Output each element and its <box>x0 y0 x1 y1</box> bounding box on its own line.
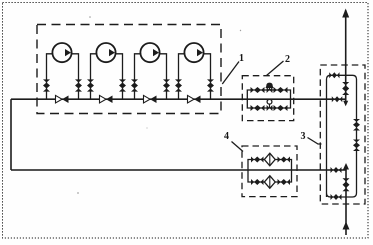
valve: header gate under pump 2 <box>100 95 107 103</box>
svg-text:1: 1 <box>239 53 244 64</box>
valve: pump 3 discharge double gate <box>163 79 170 91</box>
valve: pump 3 suction double gate <box>131 79 138 91</box>
pipe: pump 1 suction <box>47 54 54 99</box>
valve: box3 loop bottom double <box>331 194 342 200</box>
valve: header entry double (on y98.5 line) <box>332 96 343 102</box>
valve: box3 right branch lower double <box>353 140 360 152</box>
valve: pump 4 suction double gate <box>175 79 182 91</box>
valve: box4 bottom-left double <box>251 179 264 185</box>
valve: pump 1 discharge double gate <box>75 79 82 91</box>
valve: box3 right branch upper double <box>353 119 360 131</box>
valve: bottom line entry double <box>331 167 342 173</box>
valve: box2 bottom-left double <box>251 105 265 111</box>
valve: pump 2 suction double gate <box>87 79 94 91</box>
strainer: box4 top diamond <box>264 153 275 166</box>
pipe: box 4 loop <box>248 160 292 183</box>
valve: box4 top-left double <box>251 157 264 163</box>
dashed enclosure box 1 (pump house) <box>37 25 221 114</box>
valve: box4 top-right double <box>278 157 291 163</box>
valve: box2 bottom-right double <box>274 105 288 111</box>
pump GPA-2 circle <box>96 43 115 62</box>
pipe: discharge header <box>11 98 346 100</box>
pipe: box3 bypass loop <box>327 75 357 197</box>
pipe: pump 4 discharge <box>203 54 211 99</box>
valve: header gate under pump 3 <box>144 95 151 103</box>
pump GPA-3 circle <box>140 43 159 62</box>
valve: box2 top-left double <box>251 87 265 93</box>
arrow: main top line end, down into header junction <box>343 101 348 107</box>
pipe: pump 4 suction <box>179 54 186 99</box>
svg-text:3: 3 <box>301 131 306 142</box>
arrow: bottom flow up (incoming) <box>343 222 350 230</box>
pipe: pump 3 discharge <box>159 54 167 99</box>
valve: header gate under pump 1 <box>56 95 63 103</box>
pipe: pump 3 suction <box>135 54 142 99</box>
valve: header gate under pump 4 <box>188 95 195 103</box>
dashed enclosure box 3 (main line valve unit) <box>320 65 365 204</box>
valve: bottom main vertical double <box>343 178 350 191</box>
valve: box3 top horizontal double <box>329 72 339 78</box>
pipe: bottom return line <box>11 169 346 171</box>
svg-text:2: 2 <box>285 54 290 65</box>
valve: pump 2 discharge double gate <box>119 79 126 91</box>
valve: box3 main vertical double <box>342 82 349 95</box>
pipe: pump 2 discharge <box>115 54 123 99</box>
pipe: box 2 bypass loop <box>247 90 290 108</box>
svg-text:4: 4 <box>224 131 229 142</box>
pipe: left riser <box>10 99 12 170</box>
pump GPA-4 circle <box>184 43 203 62</box>
valve: box2 top centre with actuator arrow <box>269 85 271 91</box>
pipe: main line top (incoming from top arrow) <box>345 10 347 104</box>
valve: pump 4 discharge double gate <box>207 79 214 91</box>
pump GPA-1 circle <box>52 43 71 62</box>
dashed enclosure box 2 <box>242 76 293 121</box>
pipe: main line bottom (to bottom arrow) <box>345 168 347 236</box>
dashed enclosure box 4 (scrubbers) <box>242 146 297 197</box>
pipe: pump 1 discharge <box>71 54 79 99</box>
strainer: box4 bottom diamond <box>264 176 275 189</box>
valve: pump 1 suction double gate <box>43 79 50 91</box>
valve: box2 bottom centre globe (circle stem) <box>269 104 271 109</box>
arrow: top flow up <box>342 9 349 18</box>
valve: box2 top-right double <box>274 87 288 93</box>
pipe: pump 2 suction <box>91 54 98 99</box>
arrow: stub up at bottom junction <box>343 163 349 170</box>
valve: box4 bottom-right double <box>278 179 291 185</box>
